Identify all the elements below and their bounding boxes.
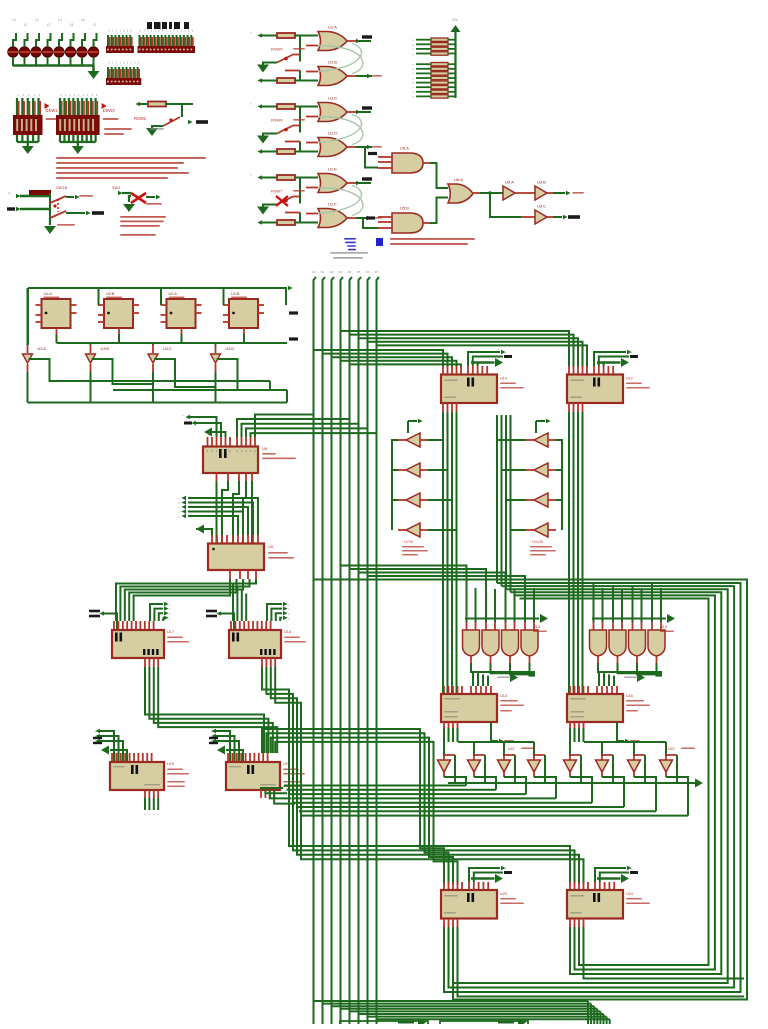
- wire U12 down 0: [568, 412, 570, 694]
- inverter U7:B2: [406, 463, 420, 477]
- wire U11:B chain 0: [556, 440, 562, 470]
- ic U8 top pin wires: [207, 437, 209, 447]
- ic U23 inner labels: [444, 895, 458, 897]
- svg-text:SW2: SW2: [112, 186, 120, 190]
- ic U19 bottom pins: [144, 790, 146, 798]
- wire FF lower rail 3: [28, 402, 288, 404]
- label unit 2 outB: [367, 145, 372, 149]
- wire U10 down 0: [442, 412, 444, 694]
- wire U24 vcc hook: [595, 868, 626, 882]
- ic U24 body: [567, 890, 623, 919]
- bus labels top: [330, 252, 368, 254]
- ic U17 bottom marks: [143, 649, 145, 655]
- wire latchB feed 3: [245, 594, 247, 622]
- ic bottom partial A: [340, 1021, 428, 1024]
- dip-switch DSW2 bottom pins: [59, 135, 61, 142]
- wire buffer 3 out: [152, 364, 154, 372]
- ic U17 body: [112, 630, 164, 658]
- wire U5 hook run 0: [188, 498, 258, 535]
- wire FF lower risers: [269, 381, 271, 390]
- wire cross rail 6: [299, 810, 656, 812]
- resistor RP1.4: [431, 52, 448, 55]
- buffer U9:C: [535, 210, 547, 224]
- wire U23 down 0: [443, 927, 445, 940]
- wire LED D6 cathode: [70, 57, 72, 66]
- wire funnel feed L3: [491, 578, 493, 600]
- wire U8 bottom to left: [216, 481, 218, 543]
- ic U20 inner text: [229, 766, 241, 767]
- wire gate A output: [347, 182, 356, 184]
- svg-text:L6: L6: [81, 18, 85, 22]
- wire SW1B out1: [66, 196, 74, 198]
- wire U7:B4 route: [428, 529, 457, 531]
- ic U5 top pins: [211, 535, 213, 544]
- resistor RP1.1: [431, 38, 448, 41]
- svg-text:U3:A: U3:A: [38, 347, 47, 351]
- label U24 dash: [600, 873, 629, 883]
- wire RP1.1 right: [448, 39, 456, 41]
- buffer V7 down: [628, 760, 641, 772]
- wire buffer 2 out: [90, 364, 92, 372]
- wire loop R2: [453, 589, 728, 983]
- wire U12 down 1: [573, 412, 575, 694]
- wire latch feed 4: [134, 579, 230, 621]
- wire loop R3: [511, 592, 722, 974]
- wire SW1 lower throw: [285, 70, 300, 72]
- flip-flop 2 pins: [98, 304, 104, 306]
- LED D2: [19, 47, 29, 57]
- wire U10 down 1: [447, 412, 449, 694]
- or-gate U1:3B: [318, 209, 347, 228]
- buffer V8 down: [660, 760, 673, 772]
- wire U9:A to U9:B: [515, 192, 535, 194]
- wire bus D5 bottom branch: [359, 1013, 604, 1015]
- wire gate B inputs: [306, 71, 318, 73]
- wire RP2.7 left: [416, 91, 431, 93]
- symbol clock U18: [206, 610, 217, 613]
- wire gate B inputs: [306, 142, 318, 144]
- resistor RP1.3: [431, 47, 448, 50]
- svg-text:U2:B: U2:B: [231, 292, 240, 296]
- wire RP2.3 left: [416, 72, 431, 74]
- ground LED rail: [88, 71, 100, 79]
- wire gate B inputs: [306, 213, 318, 215]
- note text block 2: [120, 216, 166, 218]
- and-gate U5:A: [392, 153, 423, 173]
- wire SW3 lower throw: [285, 212, 300, 214]
- wire V3 enable: [504, 754, 515, 756]
- wire funnel outs drop to U16: [598, 672, 600, 686]
- wire U11:B3 pins: [526, 499, 534, 501]
- wire U14 input drops: [593, 584, 595, 622]
- svg-text:U24: U24: [626, 892, 633, 896]
- svg-text:U13: U13: [533, 625, 540, 629]
- symbol clock U20: [209, 737, 218, 739]
- wire U19 out 3: [157, 798, 159, 810]
- wire V6 enable: [602, 754, 613, 756]
- wire LED D2 anode: [25, 33, 28, 47]
- connector J3 pins: [107, 67, 109, 78]
- wire gate A output: [347, 40, 356, 42]
- latch unit 2 input hook B: [257, 149, 262, 153]
- arrow U23 right: [471, 877, 489, 879]
- wire R1b to node: [295, 80, 318, 82]
- ic U16 body: [567, 694, 623, 722]
- wire B-F 1: [266, 667, 574, 884]
- dip-switch DSW1 top pins: [16, 98, 18, 115]
- buffer V5 down: [564, 760, 577, 772]
- wire SW1B to ground: [49, 218, 51, 225]
- ic U19 inner text: [113, 766, 125, 767]
- wire U15 right-pin feed 0: [470, 676, 472, 686]
- wire bus D1 bottom branch: [323, 1003, 592, 1005]
- LED D1: [8, 47, 18, 57]
- connector J1 body: [106, 46, 134, 53]
- wire bus D3 bottom branch: [341, 1008, 598, 1010]
- wire R3a to node: [295, 177, 318, 179]
- ground SW3: [257, 207, 269, 215]
- ic U19 top pins: [111, 753, 113, 763]
- wire SW1B node vertical: [49, 193, 51, 221]
- ic U16 inner text: [570, 698, 586, 700]
- wire U19 out 0: [144, 798, 146, 810]
- wire U7:B1 route: [428, 439, 443, 441]
- wire loop R5: [520, 599, 709, 966]
- resistor RP2.4: [431, 76, 448, 79]
- arrow bottom partial B: [498, 1022, 514, 1024]
- wire U15 out hook: [491, 722, 498, 741]
- wire RP1.2 right: [448, 43, 456, 45]
- wire V3 out: [503, 772, 505, 777]
- wire gate B output: [347, 146, 356, 148]
- label J2 black marks: [147, 22, 152, 29]
- svg-text:xx: xx: [8, 191, 12, 195]
- wire LED D1 cathode: [12, 57, 14, 66]
- wire V8 in: [665, 742, 667, 756]
- flip-flop 3 pins: [161, 304, 167, 306]
- wire bus D4: [350, 277, 353, 1024]
- note red text right of probe: [390, 238, 475, 240]
- wire LED D7 cathode: [81, 57, 83, 66]
- wire LED D3 cathode: [35, 57, 37, 66]
- wire U5:B output: [423, 222, 430, 224]
- resistor R3a: [277, 175, 295, 180]
- wire bus-U10 3: [341, 361, 457, 367]
- latch unit 3 input hook B: [257, 220, 262, 224]
- svg-text:RSW7: RSW7: [271, 189, 283, 194]
- wire triangle feed rail left: [458, 741, 534, 743]
- ic U10 inner labels: [444, 380, 458, 382]
- hook U17 r1: [154, 609, 163, 621]
- wire U9:B output: [547, 192, 553, 194]
- nand-gate U132: [482, 630, 499, 656]
- wire bus D5: [359, 277, 362, 1024]
- wire RSW2 node: [166, 103, 193, 105]
- ic U15 body: [441, 694, 497, 722]
- wire bus D1: [323, 277, 326, 1024]
- ic U20 top pins: [227, 753, 229, 763]
- wire bus-U10 0: [314, 350, 444, 367]
- wire loop R extra: [458, 929, 745, 997]
- wire SW1 to ground: [263, 63, 277, 65]
- wire A-D 3: [158, 667, 277, 753]
- wire D-E 3: [275, 742, 457, 884]
- wire FF clock drops: [98, 288, 100, 305]
- ic U18 bottom marks: [260, 649, 262, 655]
- note text block 1: [56, 157, 206, 159]
- wire V1 out: [443, 772, 445, 777]
- hook U17 r3: [162, 618, 164, 621]
- wire SW2 input: [118, 191, 123, 195]
- flip-flop 1 pins: [36, 304, 42, 306]
- wire cross rail 1: [287, 789, 497, 791]
- or-gate U1:3A: [318, 174, 347, 193]
- wire latch feed 2: [125, 579, 243, 621]
- svg-text:U1:C: U1:C: [328, 96, 337, 101]
- wire run A2: [359, 573, 506, 586]
- arrow U10 right: [478, 363, 489, 367]
- wire RP2.8 left: [416, 95, 431, 97]
- wire bus D6 bottom branch: [368, 1016, 607, 1018]
- wire FF lower rail 2: [113, 389, 287, 391]
- svg-text:D6: D6: [366, 270, 370, 274]
- wire bus-U10 1: [323, 354, 448, 367]
- connector J1 pins: [107, 35, 109, 46]
- wire U15 bottom rail drop: [443, 728, 445, 742]
- nand-gate U142: [609, 630, 626, 656]
- wire U7:B3 pins: [398, 499, 406, 501]
- ic U24 top pins: [569, 882, 571, 891]
- ic U15 inner text: [444, 698, 460, 700]
- svg-text:U15: U15: [500, 694, 507, 698]
- svg-text:DSW2: DSW2: [103, 108, 116, 113]
- hook FF right top: [288, 286, 293, 290]
- buffer V3 down: [498, 760, 511, 772]
- wire U24 down 0: [569, 927, 571, 940]
- LED D4: [42, 47, 52, 57]
- wire FF 3 bottom pin: [181, 334, 183, 343]
- wire RP2.4 left: [416, 77, 431, 79]
- label SW1B under: [57, 224, 75, 226]
- wire run A0: [341, 566, 467, 586]
- label U5:B input dash: [366, 216, 375, 219]
- wire U7:B chain 0: [392, 440, 398, 470]
- switch SW1B arm 1: [50, 196, 66, 203]
- ic U10 body: [441, 375, 497, 404]
- wire LED D5 cathode: [58, 57, 60, 66]
- svg-text:U1:E: U1:E: [328, 167, 337, 172]
- buffer V2 down: [468, 760, 481, 772]
- wire U13 enable rail: [465, 618, 535, 620]
- ic U10 bottom pins: [442, 403, 444, 413]
- wire clock hook U17: [99, 611, 104, 615]
- wire bus D7: [377, 277, 380, 1024]
- wire V4 enable: [534, 754, 545, 756]
- wire A-D 1: [149, 667, 268, 753]
- wire buffer 2 chain: [90, 343, 92, 345]
- or-gate U1:2B: [318, 138, 347, 157]
- wire RP1.3 right: [448, 48, 456, 50]
- wire loop R4: [515, 595, 715, 969]
- ic U16 top pins: [569, 686, 571, 695]
- ic U12 body: [567, 375, 623, 404]
- wire U13 input drops: [466, 584, 468, 622]
- ic U24 inner labels: [570, 895, 584, 897]
- wire U8 bottom 3: [233, 481, 239, 543]
- wire bus D3: [341, 277, 344, 1024]
- wire gate A inputs: [306, 187, 318, 189]
- ground DSW1: [22, 146, 34, 154]
- wire buffer 4 out: [215, 364, 217, 372]
- wire LED D5 anode: [59, 33, 62, 47]
- wire latch feed 0: [116, 579, 256, 621]
- ic U17 bottom pins: [144, 658, 146, 667]
- svg-text:U9:C: U9:C: [537, 204, 546, 209]
- ic U5 bottom pins: [229, 570, 231, 579]
- wire RSW2 input: [135, 102, 140, 106]
- label RSW2 terminal: [196, 120, 208, 124]
- wire buffer 4 branch: [217, 359, 279, 390]
- ic U19 body: [110, 762, 164, 790]
- switch RSW2: [163, 117, 180, 126]
- ic U5 body: [208, 544, 264, 571]
- wire LED D7 anode: [82, 33, 85, 47]
- svg-text:U23: U23: [500, 892, 507, 896]
- wire U15 right-pin feed 1: [475, 676, 477, 686]
- wire V6 out: [601, 772, 603, 777]
- wire U13 outputs: [471, 663, 535, 672]
- wire cross rail 3: [292, 797, 557, 799]
- svg-text:U9:A: U9:A: [505, 180, 514, 185]
- feedback wire 2 A: [318, 115, 361, 143]
- wire buffer 2 in: [90, 345, 92, 353]
- wire SW2 pole: [293, 125, 300, 127]
- svg-text:DSW1: DSW1: [46, 108, 59, 113]
- resistor RP1.2: [431, 43, 448, 46]
- wire U11:B2 pins: [526, 469, 534, 471]
- label unit 1 outA: [362, 35, 372, 38]
- nand-gate U134: [521, 630, 538, 656]
- wire U24 down 2: [578, 927, 580, 940]
- wire U8 out 3: [251, 433, 377, 437]
- wire U8 out 1: [242, 424, 359, 437]
- svg-text:L7: L7: [93, 23, 97, 27]
- arrow buffer rail: [695, 779, 703, 788]
- wire bus D4 bottom branch: [350, 1010, 601, 1012]
- svg-text:L2: L2: [35, 18, 39, 22]
- wire U11:B chain 2: [556, 500, 562, 530]
- svg-text:U2:A: U2:A: [169, 292, 178, 296]
- wire D-E 1: [266, 733, 448, 884]
- resistor R1a: [277, 33, 295, 38]
- wire bus D6: [368, 277, 371, 1024]
- wire unit2 outB to U5:A: [356, 147, 378, 168]
- inverter U11:B3: [534, 493, 548, 507]
- dip-switch DSW1 bottom pins: [16, 135, 18, 142]
- wire buffer enable rail: [448, 782, 688, 784]
- svg-text:RSW2: RSW2: [134, 116, 147, 121]
- wire FF bottom rail: [57, 342, 288, 344]
- wire U11:B chain 1: [556, 470, 562, 500]
- ic U15 bottom pins: [443, 722, 445, 731]
- ground SW2: [257, 136, 269, 144]
- wire RP2.5 left: [416, 82, 431, 84]
- LED D7: [77, 47, 87, 57]
- ic U23 body: [441, 890, 497, 919]
- svg-text:U1:D: U1:D: [328, 131, 337, 136]
- wire FF lower rail 1: [50, 380, 270, 382]
- wire U23 down 2: [452, 927, 454, 940]
- nand-gate U144: [648, 630, 665, 656]
- wire U10 vcc hook: [468, 352, 500, 366]
- wire bus D0 bottom branch: [314, 1000, 589, 1002]
- feedback wire 1 A: [318, 44, 361, 72]
- svg-text:U1:F: U1:F: [328, 202, 337, 207]
- label unit 2 outA: [362, 106, 372, 109]
- wire U16 out hook: [617, 722, 624, 741]
- nand-gate U141: [590, 630, 607, 656]
- wire V4 out: [533, 772, 535, 777]
- wire U8 bottom 5: [251, 481, 253, 543]
- wire loop R0: [444, 583, 741, 992]
- wire U15 right-pin feed 2: [480, 676, 482, 686]
- arrow U19 left: [101, 746, 109, 755]
- wire U15 right-pin feed 3: [485, 676, 487, 686]
- wire V3 in: [503, 742, 505, 756]
- wire U20 down 2: [270, 790, 291, 798]
- wire RSW2 to ground: [152, 126, 163, 128]
- arrow U24 right: [597, 877, 615, 879]
- switch SW2 cross: [131, 193, 146, 203]
- wire FF 2 bottom pin: [118, 334, 120, 343]
- wire U8 out 0: [237, 419, 350, 437]
- label U23 dash: [474, 873, 503, 883]
- svg-text:U9:B: U9:B: [537, 180, 546, 185]
- wire LED D8 cathode: [93, 57, 95, 66]
- ic U8 body: [203, 447, 258, 474]
- wire U20 down 1: [265, 790, 287, 793]
- resistor RP2.7: [431, 90, 448, 93]
- inverter U11:B1: [534, 433, 548, 447]
- wire V5 in: [569, 742, 571, 756]
- ic U23 bottom pins: [443, 919, 445, 928]
- buffer U9:A: [503, 186, 515, 200]
- hook U7:B top: [418, 419, 423, 423]
- svg-text:U2:A: U2:A: [44, 292, 53, 296]
- switch unit3 closed X: [276, 196, 288, 206]
- label FF right dash 2: [289, 337, 298, 340]
- svg-text:U18: U18: [284, 630, 291, 634]
- wire LED D1 anode: [13, 33, 16, 47]
- inverter U11:B4: [534, 523, 548, 537]
- resistor RP2.3: [431, 72, 448, 75]
- svg-text:U5: U5: [268, 544, 274, 549]
- wire U8 bottom 2: [222, 481, 228, 543]
- svg-text:U17: U17: [167, 630, 174, 634]
- wire U12 down 2: [577, 412, 579, 694]
- resistor R3b: [277, 220, 295, 225]
- wire SW2 to ground: [263, 134, 277, 136]
- svg-text:U1:B: U1:B: [328, 60, 337, 65]
- hooks U19 top-left: [95, 729, 100, 733]
- wire RP1.4 right: [448, 53, 456, 55]
- wire U9:C output: [547, 216, 553, 218]
- dip-switch DSW2 body: [56, 115, 100, 135]
- wire U8 out 2: [246, 428, 368, 437]
- wire buffer 3 in: [152, 345, 154, 353]
- latch unit 1 input hook B: [257, 78, 262, 82]
- svg-text:RSW6: RSW6: [271, 118, 283, 123]
